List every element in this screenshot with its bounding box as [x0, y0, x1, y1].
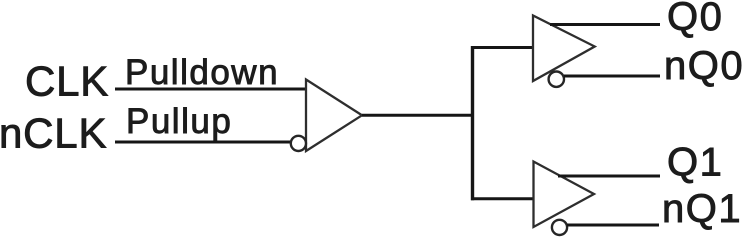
- wire branch to U2: [471, 46, 534, 49]
- svg-text:Pullup: Pullup: [126, 102, 232, 141]
- op-amp U1 input buffer triangle: [306, 80, 362, 152]
- inversion bubble on U1 nCLK input: [291, 136, 306, 151]
- svg-text:nQ0: nQ0: [664, 44, 744, 88]
- inversion bubble on U3 nQ1 output: [552, 220, 567, 235]
- wire Q1: [558, 175, 660, 178]
- svg-text:Pulldown: Pulldown: [125, 53, 279, 92]
- wire branch to U3: [471, 197, 535, 200]
- wire CLK input (Pulldown): [115, 88, 307, 91]
- svg-text:nQ1: nQ1: [662, 187, 742, 231]
- wire nQ0: [564, 75, 660, 78]
- wire nQ1: [567, 224, 659, 227]
- wire nCLK input (Pullup): [115, 141, 292, 144]
- svg-text:Q1: Q1: [667, 141, 723, 185]
- op-amp U2 output buffer triangle: [533, 16, 595, 82]
- inversion bubble on U2 nQ0 output: [549, 72, 564, 87]
- svg-text:Q0: Q0: [667, 0, 723, 39]
- op-amp U3 output buffer triangle: [534, 162, 595, 228]
- wire Q0: [550, 23, 660, 26]
- wire branch vertical: [471, 46, 474, 200]
- wire U1 output: [362, 114, 474, 117]
- svg-text:nCLK: nCLK: [0, 110, 107, 157]
- svg-text:CLK: CLK: [25, 58, 109, 105]
